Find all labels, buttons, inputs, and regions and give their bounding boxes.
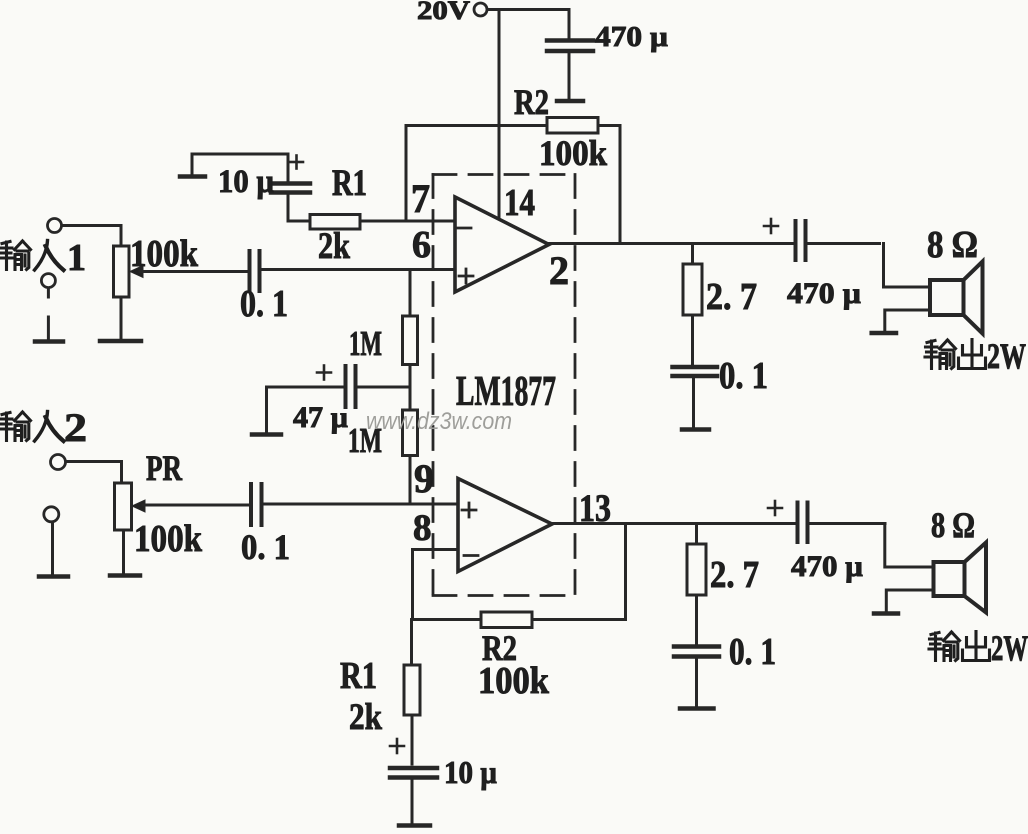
svg-text:0. 1: 0. 1 <box>719 355 768 397</box>
svg-text:0. 1: 0. 1 <box>729 631 776 673</box>
capacitor 0.1 input1 <box>250 251 260 291</box>
svg-text:1: 1 <box>67 237 86 279</box>
svg-text:470 µ: 470 µ <box>791 550 863 583</box>
plus sign 470u ch2 <box>768 501 782 515</box>
capacitor C 470u power filter <box>547 10 593 102</box>
svg-text:R1: R1 <box>332 163 367 204</box>
wire feedback left vertical <box>405 126 408 222</box>
ground 0.1 ch1 <box>682 427 709 432</box>
svg-text:100k: 100k <box>130 233 199 275</box>
svg-text:2k: 2k <box>318 226 350 267</box>
svg-text:2W: 2W <box>991 628 1028 668</box>
resistor R2 top 100k <box>407 118 620 244</box>
ground speaker 2 <box>874 611 898 616</box>
open terminal circle input1 lower <box>41 274 55 297</box>
capacitor 47u <box>267 366 411 407</box>
output wire channel 2 <box>552 522 795 525</box>
wire 10u top <box>192 153 288 156</box>
svg-text:0. 1: 0. 1 <box>241 527 290 567</box>
svg-text:8 Ω: 8 Ω <box>931 505 975 545</box>
svg-text:6: 6 <box>412 224 431 266</box>
capacitor 0.1 input2 <box>251 484 262 525</box>
svg-text:1M: 1M <box>349 324 382 363</box>
svg-text:2: 2 <box>64 405 87 450</box>
svg-text:www.dz3w.com: www.dz3w.com <box>366 408 512 435</box>
power terminal 20V <box>474 3 487 16</box>
wire input2 to pot <box>66 462 122 484</box>
svg-text:470 µ: 470 µ <box>787 277 861 310</box>
potentiometer PR 100k input2 <box>110 483 145 576</box>
svg-text:2. 7: 2. 7 <box>706 276 757 318</box>
speaker 2 <box>934 543 987 613</box>
capacitor 0.1 ch1 <box>673 367 718 427</box>
svg-text:14: 14 <box>504 182 535 224</box>
capacitor 0.1 ch2 <box>674 647 719 707</box>
wire 1M-1 top lead <box>409 270 412 317</box>
output wire channel 1 <box>549 242 793 245</box>
wire wiper to cap 0.1 <box>140 270 247 273</box>
capacitor 10u bottom <box>390 768 437 823</box>
svg-text:2k: 2k <box>349 697 382 738</box>
resistor 2.7 ch2 <box>687 524 706 644</box>
op-amp U1a <box>455 197 549 292</box>
wire pin6 input line <box>262 268 455 271</box>
ground input2 lower <box>39 574 68 579</box>
plus sign 47u <box>317 366 331 380</box>
plus sign 10u top <box>290 156 303 169</box>
op-amp U1b <box>458 479 552 572</box>
potentiometer 100k input1 <box>100 246 143 341</box>
svg-text:10 µ: 10 µ <box>444 754 497 790</box>
plus sign 10u bottom <box>390 739 404 753</box>
wire pin9 input line <box>264 503 458 506</box>
resistor 1M upper <box>403 316 418 410</box>
resistor R1 bottom 2k <box>404 620 420 765</box>
svg-text:47 µ: 47 µ <box>293 401 348 434</box>
svg-text:R1: R1 <box>340 655 377 697</box>
ground 10u bottom <box>399 823 430 828</box>
ground 0.1 ch2 <box>680 706 714 711</box>
svg-text:8: 8 <box>413 508 432 549</box>
resistor R1 top 2k <box>288 215 455 230</box>
wire speaker2 to ground <box>886 590 933 611</box>
label output 2W ch1 (drawn CJK shu-chu 2W) <box>925 340 986 369</box>
label output 2W ch2 (drawn CJK shu-chu 2W) <box>929 632 990 661</box>
ground top-left <box>180 154 205 177</box>
svg-text:7: 7 <box>411 176 430 221</box>
ground input1 <box>35 317 63 342</box>
svg-text:10 µ: 10 µ <box>218 164 274 200</box>
svg-text:2W: 2W <box>987 336 1026 376</box>
wire wiper2 to cap <box>143 504 249 507</box>
svg-text:0. 1: 0. 1 <box>240 283 288 325</box>
svg-text:470 µ: 470 µ <box>595 22 668 53</box>
svg-text:20V: 20V <box>417 0 470 25</box>
svg-text:2: 2 <box>549 248 569 293</box>
ground 47u <box>252 387 281 435</box>
plus sign 470u ch1 <box>764 219 778 233</box>
input terminal 2 circle <box>51 455 66 470</box>
svg-text:9: 9 <box>414 456 434 501</box>
svg-text:100k: 100k <box>134 518 203 560</box>
wire to speaker 2 <box>885 524 934 568</box>
capacitor 470u ch2 <box>798 503 886 543</box>
open terminal circle input2 lower <box>44 507 59 574</box>
svg-text:100k: 100k <box>478 660 550 702</box>
resistor 1M lower <box>403 410 418 504</box>
speaker 1 <box>930 262 983 334</box>
svg-text:8 Ω: 8 Ω <box>927 224 978 266</box>
svg-text:R2: R2 <box>514 82 549 122</box>
label input 1 (drawn CJK shu-ru 1) <box>0 241 64 271</box>
IC dashed box LM1877 <box>433 175 575 596</box>
svg-text:2. 7: 2. 7 <box>710 554 759 596</box>
label input 2 (drawn CJK shu-ru 2) <box>0 412 64 442</box>
capacitor 470u ch1 <box>796 221 880 260</box>
input terminal 1 circle <box>48 219 62 233</box>
resistor R2 bottom 100k <box>413 524 626 628</box>
wire input1 to pot <box>62 226 121 247</box>
svg-text:100k: 100k <box>539 133 607 173</box>
wire 20V to filter cap <box>488 8 570 11</box>
capacitor 10u top polarized <box>271 154 310 221</box>
svg-text:PR: PR <box>146 448 183 488</box>
wire supply down to pin 14 <box>498 10 501 219</box>
ground speaker 1 <box>872 331 896 336</box>
resistor 2.7 ch1 <box>683 244 702 365</box>
wire speaker1 to ground <box>885 310 930 331</box>
wire pin8 feedback <box>413 550 459 620</box>
wire to speaker 1 <box>884 244 931 288</box>
